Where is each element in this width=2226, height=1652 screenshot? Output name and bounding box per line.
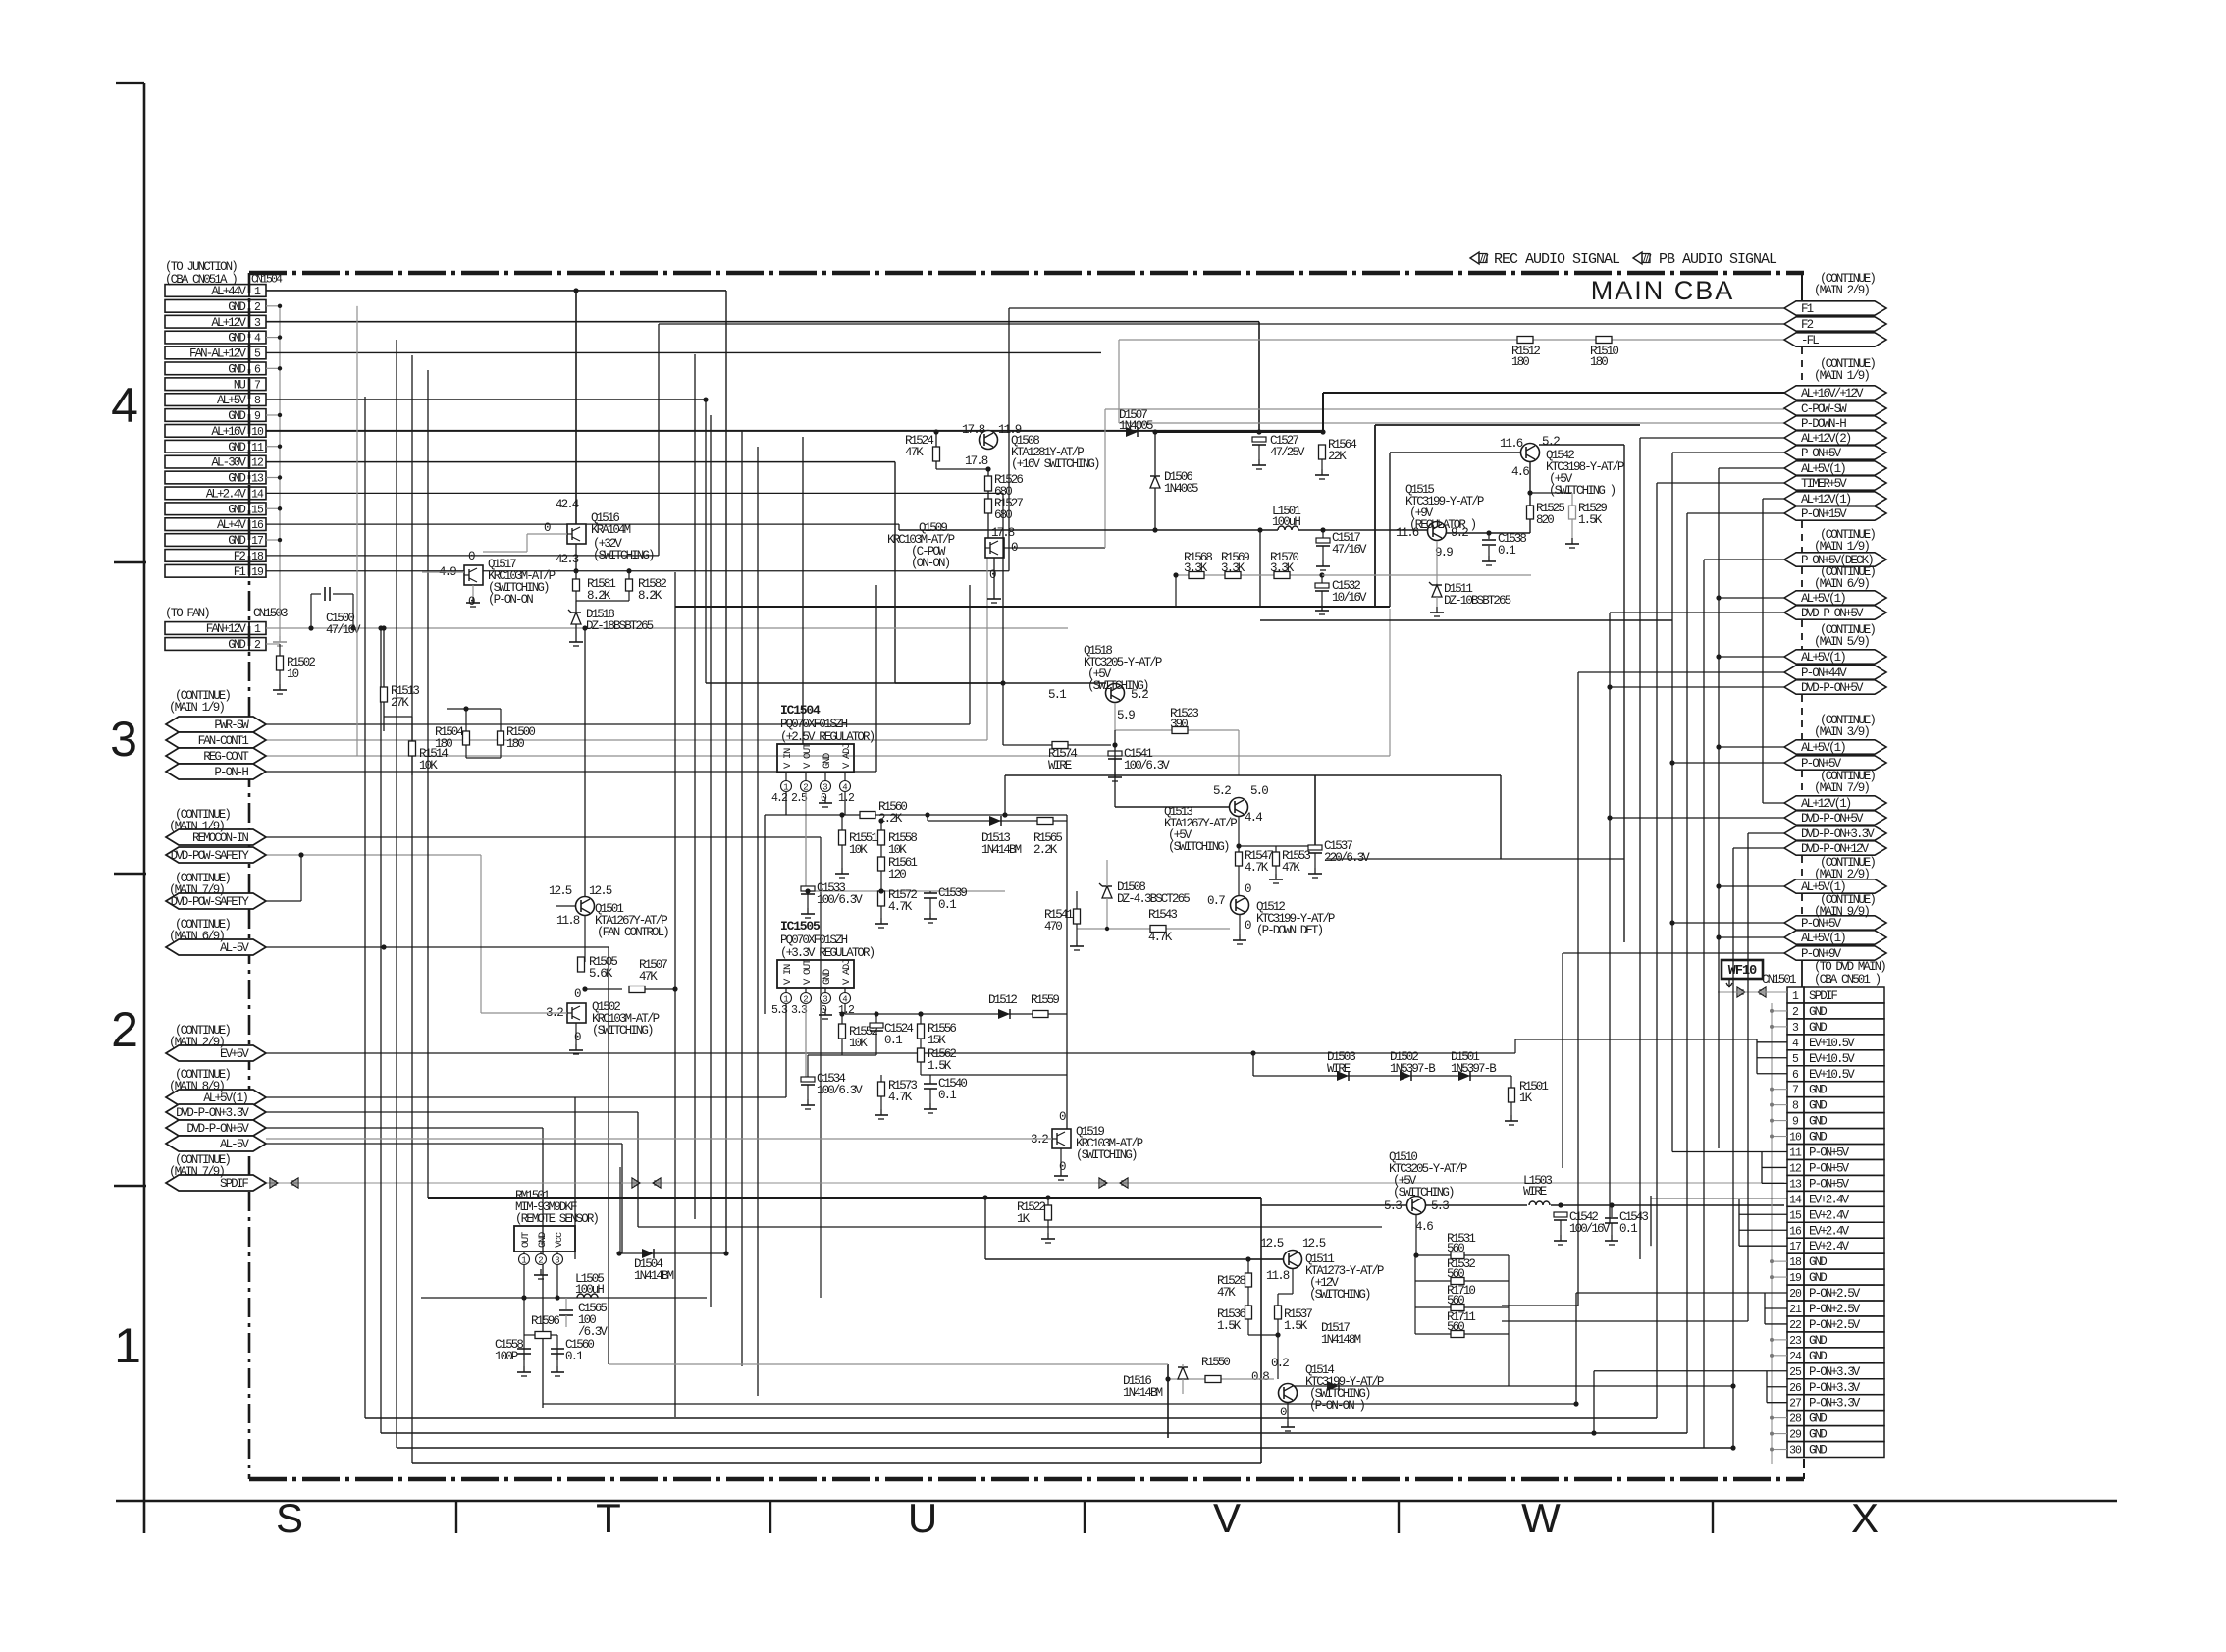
- svg-text:OUT: OUT: [520, 1232, 532, 1248]
- svg-text:30: 30: [1789, 1445, 1802, 1458]
- svg-text:1.5K: 1.5K: [1578, 513, 1603, 527]
- svg-text:0.1: 0.1: [884, 1034, 902, 1047]
- svg-text:1N4005: 1N4005: [1119, 419, 1153, 433]
- svg-text:21: 21: [1789, 1304, 1802, 1316]
- svg-text:EV+10.5V: EV+10.5V: [1809, 1037, 1855, 1050]
- svg-text:11.8: 11.8: [1266, 1269, 1290, 1283]
- svg-text:(MAIN 9/9): (MAIN 9/9): [1814, 905, 1869, 919]
- svg-text:120: 120: [888, 868, 906, 881]
- svg-text:180: 180: [435, 737, 452, 751]
- svg-text:2.2K: 2.2K: [1033, 843, 1058, 857]
- svg-text:10/16V: 10/16V: [1332, 591, 1367, 605]
- svg-text:12: 12: [251, 457, 264, 470]
- svg-text:17.8: 17.8: [962, 423, 985, 437]
- svg-text:19: 19: [1789, 1272, 1802, 1285]
- svg-text:4.4: 4.4: [1245, 811, 1262, 825]
- svg-text:-FL: -FL: [1801, 334, 1819, 347]
- svg-text:(MAIN 5/9): (MAIN 5/9): [1814, 635, 1869, 649]
- svg-text:GND: GND: [1809, 1099, 1827, 1113]
- svg-text:7: 7: [1792, 1085, 1798, 1097]
- svg-text:22K: 22K: [1328, 450, 1347, 463]
- svg-text:GND: GND: [821, 969, 833, 985]
- svg-text:1.2: 1.2: [838, 792, 855, 805]
- svg-text:180: 180: [1590, 355, 1608, 369]
- svg-text:(MAIN 2/9): (MAIN 2/9): [1814, 284, 1869, 297]
- svg-text:3.3K: 3.3K: [1221, 561, 1245, 575]
- svg-text:SPDIF: SPDIF: [1809, 989, 1837, 1003]
- svg-text:1: 1: [783, 783, 788, 793]
- svg-text:(MAIN 1/9): (MAIN 1/9): [1814, 540, 1869, 554]
- svg-text:10K: 10K: [849, 1037, 868, 1050]
- svg-text:GND: GND: [1809, 1412, 1827, 1426]
- svg-text:AL+5V(1): AL+5V(1): [1801, 880, 1845, 894]
- svg-text:(SWITCHING ): (SWITCHING ): [1549, 484, 1616, 498]
- svg-text:R1550: R1550: [1201, 1356, 1230, 1369]
- svg-text:AL+16V/+12V: AL+16V/+12V: [1801, 387, 1864, 400]
- svg-text:AL+5V(1): AL+5V(1): [1801, 741, 1845, 755]
- svg-text:0.1: 0.1: [1498, 544, 1515, 558]
- svg-text:5.6K: 5.6K: [589, 967, 613, 981]
- svg-text:18: 18: [251, 551, 264, 563]
- svg-text:EV+10.5V: EV+10.5V: [1809, 1052, 1855, 1066]
- svg-text:(P-DOWN DET): (P-DOWN DET): [1256, 924, 1323, 937]
- svg-text:3.3K: 3.3K: [1270, 561, 1295, 575]
- svg-text:390: 390: [1170, 718, 1188, 731]
- svg-text:15K: 15K: [927, 1034, 946, 1047]
- svg-text:22: 22: [1789, 1319, 1802, 1332]
- svg-text:DVD-POW-SAFETY: DVD-POW-SAFETY: [171, 849, 250, 863]
- svg-text:AL+5V(1): AL+5V(1): [1801, 932, 1845, 945]
- svg-text:GND: GND: [1809, 1271, 1827, 1285]
- svg-text:13: 13: [251, 473, 264, 486]
- svg-text:AL+12V(1): AL+12V(1): [1801, 493, 1851, 506]
- svg-text:560: 560: [1447, 1267, 1464, 1281]
- svg-text:GND: GND: [228, 534, 245, 548]
- svg-text:F2: F2: [1801, 318, 1814, 332]
- svg-text:AL+16V: AL+16V: [211, 425, 246, 439]
- svg-text:AL+5V(1): AL+5V(1): [1801, 651, 1845, 665]
- svg-text:47K: 47K: [639, 970, 658, 984]
- svg-text:15: 15: [1789, 1209, 1802, 1222]
- svg-text:24: 24: [1789, 1351, 1802, 1363]
- svg-text:42.3: 42.3: [556, 553, 579, 566]
- svg-text:15: 15: [251, 504, 264, 516]
- svg-text:AL+12V: AL+12V: [211, 316, 246, 330]
- svg-text:3: 3: [555, 1256, 559, 1266]
- svg-text:R1559: R1559: [1031, 993, 1059, 1007]
- svg-text:GND: GND: [1809, 1334, 1827, 1348]
- svg-text:GND: GND: [1809, 1444, 1827, 1458]
- svg-text:P-ON+3.3V: P-ON+3.3V: [1809, 1381, 1861, 1395]
- svg-text:4.7K: 4.7K: [1245, 861, 1269, 875]
- svg-text:P-DOWN-H: P-DOWN-H: [1801, 417, 1846, 431]
- svg-text:GND: GND: [228, 409, 245, 423]
- svg-text:16: 16: [251, 519, 264, 532]
- svg-text:CN1503: CN1503: [253, 607, 288, 620]
- svg-text:GND: GND: [1809, 1115, 1827, 1129]
- svg-text:(MAIN 1/9): (MAIN 1/9): [1814, 369, 1869, 383]
- svg-text:12.5: 12.5: [549, 884, 572, 898]
- svg-text:(CBA CN501 ): (CBA CN501 ): [1814, 973, 1881, 986]
- svg-text:DVD-P-ON+12V: DVD-P-ON+12V: [1801, 842, 1870, 856]
- svg-text:P-ON+3.3V: P-ON+3.3V: [1809, 1365, 1861, 1379]
- svg-text:9.9: 9.9: [1435, 546, 1453, 560]
- svg-text:23: 23: [1789, 1335, 1802, 1348]
- svg-text:EV+10.5V: EV+10.5V: [1809, 1068, 1855, 1082]
- svg-text:5.0: 5.0: [1250, 784, 1268, 798]
- svg-text:V: V: [1213, 1495, 1241, 1541]
- svg-text:DVD-P-ON+3.3V: DVD-P-ON+3.3V: [176, 1106, 249, 1120]
- svg-text:(TO JUNCTION): (TO JUNCTION): [165, 260, 237, 274]
- svg-text:2: 2: [111, 1002, 138, 1057]
- svg-text:P-ON+15V: P-ON+15V: [1801, 507, 1847, 521]
- svg-text:47/25V: 47/25V: [1270, 446, 1305, 459]
- svg-text:REMOCON-IN: REMOCON-IN: [192, 831, 248, 845]
- svg-text:1N414BM: 1N414BM: [634, 1269, 674, 1283]
- svg-text:PB AUDIO SIGNAL: PB AUDIO SIGNAL: [1659, 251, 1777, 268]
- svg-text:16: 16: [1789, 1225, 1802, 1238]
- svg-text:DZ-18BSBT265: DZ-18BSBT265: [586, 619, 654, 633]
- svg-text:42.4: 42.4: [556, 498, 579, 511]
- svg-text:4.7K: 4.7K: [1148, 931, 1173, 944]
- svg-text:100/16V: 100/16V: [1569, 1222, 1611, 1236]
- svg-text:P-ON+5V: P-ON+5V: [1801, 757, 1842, 771]
- svg-text:(SWITCHING): (SWITCHING): [1393, 1186, 1454, 1199]
- svg-text:(SWITCHING): (SWITCHING): [593, 549, 654, 562]
- svg-text:10: 10: [251, 426, 264, 439]
- svg-text:2: 2: [803, 995, 808, 1005]
- svg-text:820: 820: [1536, 513, 1554, 527]
- svg-text:1.5K: 1.5K: [927, 1059, 952, 1073]
- svg-text:DVD-POW-SAFETY: DVD-POW-SAFETY: [171, 895, 250, 909]
- svg-text:Vcc: Vcc: [554, 1232, 565, 1248]
- svg-text:FAN+12V: FAN+12V: [206, 622, 247, 636]
- svg-text:GND: GND: [1809, 1428, 1827, 1442]
- svg-text:5.2: 5.2: [1131, 688, 1148, 702]
- svg-text:3: 3: [822, 783, 827, 793]
- svg-text:(MAIN 6/9): (MAIN 6/9): [169, 930, 224, 943]
- svg-text:14: 14: [251, 488, 264, 501]
- svg-text:47K: 47K: [905, 446, 924, 459]
- svg-text:17: 17: [251, 535, 263, 548]
- svg-text:12.5: 12.5: [1302, 1237, 1326, 1251]
- svg-text:V IN: V IN: [782, 748, 794, 769]
- svg-text:11.8: 11.8: [556, 914, 580, 928]
- svg-text:EV+2.4V: EV+2.4V: [1809, 1208, 1850, 1222]
- svg-text:AL+5V(1): AL+5V(1): [1801, 592, 1845, 606]
- svg-text:P-ON+3.3V: P-ON+3.3V: [1809, 1397, 1861, 1411]
- svg-text:4.7K: 4.7K: [888, 900, 913, 914]
- svg-text:(SWITCHING): (SWITCHING): [1076, 1148, 1137, 1162]
- svg-text:(+3.3V REGULATOR): (+3.3V REGULATOR): [780, 946, 874, 960]
- svg-text:17.8: 17.8: [965, 454, 988, 468]
- svg-text:(MAIN 8/9): (MAIN 8/9): [169, 1080, 224, 1093]
- svg-text:GND: GND: [228, 300, 245, 314]
- svg-text:13: 13: [1789, 1178, 1802, 1191]
- svg-text:25: 25: [1789, 1366, 1802, 1379]
- svg-text:4: 4: [842, 783, 847, 793]
- svg-text:14: 14: [1789, 1194, 1802, 1206]
- svg-text:GND: GND: [1809, 1021, 1827, 1035]
- svg-text:AL+5V: AL+5V: [217, 394, 246, 407]
- svg-text:0.7: 0.7: [1207, 894, 1225, 908]
- svg-text:V ADJ: V ADJ: [841, 959, 853, 985]
- svg-text:10: 10: [1789, 1132, 1802, 1145]
- svg-text:(SWITCHING): (SWITCHING): [1309, 1288, 1370, 1302]
- svg-text:12.5: 12.5: [1260, 1237, 1284, 1251]
- svg-text:100uH: 100uH: [1272, 515, 1300, 529]
- svg-text:10: 10: [287, 667, 299, 681]
- svg-text:220/6.3V: 220/6.3V: [1324, 851, 1370, 865]
- svg-text:F1: F1: [1801, 302, 1814, 316]
- svg-text:P-ON+5V: P-ON+5V: [1809, 1146, 1850, 1160]
- svg-text:WIRE: WIRE: [1048, 759, 1072, 773]
- svg-text:10K: 10K: [849, 843, 868, 857]
- svg-text:560: 560: [1447, 1242, 1464, 1255]
- svg-text:R1596: R1596: [531, 1314, 559, 1328]
- svg-text:(FAN CONTROL): (FAN CONTROL): [597, 926, 668, 939]
- svg-text:0.1: 0.1: [938, 1089, 956, 1102]
- svg-text:DVD-P-ON+5V: DVD-P-ON+5V: [1801, 607, 1864, 620]
- svg-text:MAIN CBA: MAIN CBA: [1591, 276, 1735, 305]
- svg-text:4.6: 4.6: [1415, 1220, 1433, 1234]
- svg-text:(MAIN 6/9): (MAIN 6/9): [1814, 577, 1869, 591]
- svg-text:100P: 100P: [495, 1350, 518, 1363]
- svg-text:12.5: 12.5: [589, 884, 612, 898]
- svg-text:V OUT: V OUT: [802, 743, 814, 769]
- svg-text:TIMER+5V: TIMER+5V: [1801, 477, 1847, 491]
- svg-text:47K: 47K: [1282, 861, 1300, 875]
- svg-text:GND: GND: [1809, 1255, 1827, 1269]
- svg-text:EV+2.4V: EV+2.4V: [1809, 1193, 1850, 1206]
- svg-text:P-ON+5V: P-ON+5V: [1801, 917, 1842, 931]
- svg-text:(SWITCHING): (SWITCHING): [1168, 840, 1229, 854]
- svg-text:PWR-SW: PWR-SW: [214, 719, 249, 732]
- svg-text:11.6: 11.6: [1396, 526, 1419, 540]
- svg-text:P-ON+5V: P-ON+5V: [1801, 447, 1842, 460]
- svg-text:5.9: 5.9: [1117, 709, 1135, 722]
- svg-text:DVD-P-ON+5V: DVD-P-ON+5V: [1801, 812, 1864, 826]
- svg-text:P-ON+2.5V: P-ON+2.5V: [1809, 1318, 1861, 1332]
- svg-text:C-POW-SW: C-POW-SW: [1801, 402, 1847, 416]
- svg-text:(TO DVD MAIN): (TO DVD MAIN): [1814, 960, 1885, 974]
- svg-text:REG-CONT: REG-CONT: [203, 750, 249, 764]
- svg-text:(MAIN 1/9): (MAIN 1/9): [169, 820, 224, 833]
- svg-text:W: W: [1521, 1495, 1561, 1541]
- svg-text:X: X: [1851, 1495, 1879, 1541]
- svg-text:1.5K: 1.5K: [1217, 1319, 1242, 1333]
- svg-text:(MAIN 3/9): (MAIN 3/9): [1814, 725, 1869, 739]
- svg-text:19: 19: [251, 566, 264, 579]
- svg-text:11: 11: [251, 442, 264, 454]
- svg-text:0.1: 0.1: [565, 1350, 583, 1363]
- svg-text:P-ON+2.5V: P-ON+2.5V: [1809, 1287, 1861, 1301]
- svg-text:(ON-ON): (ON-ON): [911, 557, 950, 570]
- svg-text:(REMOTE SENSOR): (REMOTE SENSOR): [515, 1212, 598, 1226]
- svg-text:DZ-10BSBT265: DZ-10BSBT265: [1444, 594, 1511, 608]
- svg-text:S: S: [276, 1495, 303, 1541]
- svg-text:GND: GND: [228, 441, 245, 454]
- svg-text:T: T: [596, 1495, 621, 1541]
- svg-text:V IN: V IN: [782, 964, 794, 985]
- svg-text:GND: GND: [537, 1232, 549, 1248]
- svg-text:1N4148M: 1N4148M: [1321, 1333, 1361, 1347]
- svg-text:(P-ON-ON ): (P-ON-ON ): [1309, 1399, 1364, 1412]
- svg-text:AL+12V(1): AL+12V(1): [1801, 797, 1851, 811]
- svg-text:3.2: 3.2: [1031, 1133, 1048, 1146]
- svg-text:2: 2: [803, 783, 808, 793]
- svg-text:DZ-4.3BSCT265: DZ-4.3BSCT265: [1117, 892, 1190, 906]
- svg-text:11.6: 11.6: [1500, 437, 1523, 451]
- svg-text:P-ON+2.5V: P-ON+2.5V: [1809, 1303, 1861, 1316]
- svg-text:F1: F1: [234, 565, 246, 579]
- svg-text:DVD-P-ON+3.3V: DVD-P-ON+3.3V: [1801, 827, 1875, 841]
- svg-text:180: 180: [506, 737, 524, 751]
- svg-text:0.8: 0.8: [1251, 1370, 1269, 1384]
- svg-text:REC AUDIO SIGNAL: REC AUDIO SIGNAL: [1494, 251, 1620, 268]
- svg-text:U: U: [908, 1495, 937, 1541]
- svg-text:/6.3V: /6.3V: [578, 1325, 608, 1339]
- svg-text:1: 1: [783, 995, 788, 1005]
- svg-text:(MAIN 2/9): (MAIN 2/9): [1814, 868, 1869, 881]
- svg-text:AL+5V(1): AL+5V(1): [203, 1092, 247, 1105]
- svg-text:(TO FAN): (TO FAN): [165, 607, 209, 620]
- svg-text:0.1: 0.1: [938, 898, 956, 912]
- svg-text:27K: 27K: [391, 696, 409, 710]
- svg-text:1N5397-B: 1N5397-B: [1451, 1062, 1497, 1076]
- svg-text:GND: GND: [1809, 1005, 1827, 1019]
- svg-text:GND: GND: [228, 503, 245, 516]
- svg-text:1N414BM: 1N414BM: [981, 843, 1022, 857]
- svg-text:560: 560: [1447, 1320, 1464, 1334]
- svg-text:1N5397-B: 1N5397-B: [1390, 1062, 1436, 1076]
- svg-text:AL-5V: AL-5V: [220, 941, 249, 955]
- svg-text:0.1: 0.1: [1619, 1222, 1637, 1236]
- svg-text:NU: NU: [234, 378, 246, 392]
- svg-text:(+2.5V REGULATOR): (+2.5V REGULATOR): [780, 730, 874, 744]
- svg-text:100/6.3V: 100/6.3V: [817, 893, 863, 907]
- svg-text:29: 29: [1789, 1429, 1802, 1442]
- svg-text:12: 12: [1789, 1162, 1802, 1175]
- svg-text:WIRE: WIRE: [1327, 1062, 1351, 1076]
- svg-text:4.6: 4.6: [1511, 465, 1529, 479]
- svg-text:0.2: 0.2: [1271, 1357, 1289, 1370]
- svg-text:F2: F2: [234, 550, 246, 563]
- svg-text:5.3: 5.3: [1384, 1199, 1402, 1213]
- svg-text:CN1501: CN1501: [1762, 973, 1796, 986]
- svg-text:(+16V SWITCHING): (+16V SWITCHING): [1011, 457, 1099, 471]
- svg-text:(MAIN 1/9): (MAIN 1/9): [169, 701, 224, 715]
- svg-text:5.2: 5.2: [1213, 784, 1231, 798]
- svg-text:V OUT: V OUT: [802, 959, 814, 985]
- svg-text:7: 7: [254, 379, 260, 392]
- svg-text:560: 560: [1447, 1294, 1464, 1307]
- svg-text:P-ON+5V: P-ON+5V: [1809, 1161, 1850, 1175]
- svg-text:1.5K: 1.5K: [1284, 1319, 1308, 1333]
- svg-text:V ADJ: V ADJ: [841, 743, 853, 769]
- svg-text:GND: GND: [821, 753, 833, 769]
- svg-text:DVD-P-ON+5V: DVD-P-ON+5V: [186, 1122, 249, 1136]
- svg-text:100uH: 100uH: [575, 1283, 604, 1297]
- svg-text:GND: GND: [228, 472, 245, 486]
- svg-text:P-ON+9V: P-ON+9V: [1801, 947, 1842, 961]
- svg-text:8.2K: 8.2K: [638, 589, 662, 603]
- svg-text:47K: 47K: [1217, 1286, 1236, 1300]
- svg-text:180: 180: [1511, 355, 1529, 369]
- svg-text:AL+5V(1): AL+5V(1): [1801, 462, 1845, 476]
- svg-text:5.1: 5.1: [1048, 688, 1066, 702]
- svg-text:18: 18: [1789, 1256, 1802, 1269]
- svg-text:EV+2.4V: EV+2.4V: [1809, 1224, 1850, 1238]
- svg-text:GND: GND: [1809, 1131, 1827, 1145]
- svg-text:1: 1: [521, 1256, 526, 1266]
- svg-text:PQ070XF01SZH: PQ070XF01SZH: [780, 933, 848, 947]
- svg-text:(SWITCHING): (SWITCHING): [592, 1024, 653, 1038]
- svg-text:(MAIN 7/9): (MAIN 7/9): [169, 883, 224, 897]
- svg-text:(MAIN 2/9): (MAIN 2/9): [169, 1036, 224, 1049]
- svg-text:26: 26: [1789, 1382, 1802, 1395]
- svg-text:SPDIF: SPDIF: [220, 1177, 248, 1191]
- svg-text:11: 11: [1789, 1147, 1802, 1160]
- svg-text:20: 20: [1789, 1288, 1802, 1301]
- svg-text:2: 2: [538, 1256, 543, 1266]
- svg-text:GND: GND: [1809, 1084, 1827, 1097]
- svg-text:GND: GND: [228, 362, 245, 376]
- svg-text:IC1504: IC1504: [780, 703, 821, 718]
- svg-text:(MAIN 7/9): (MAIN 7/9): [169, 1165, 224, 1179]
- svg-text:470: 470: [1044, 920, 1062, 933]
- svg-text:10K: 10K: [419, 759, 438, 773]
- svg-text:5.2: 5.2: [1542, 435, 1560, 449]
- svg-text:27: 27: [1789, 1398, 1801, 1411]
- svg-text:3.3K: 3.3K: [1184, 561, 1208, 575]
- svg-text:3: 3: [822, 995, 827, 1005]
- svg-text:P-ON+5V: P-ON+5V: [1809, 1177, 1850, 1191]
- svg-text:IC1505: IC1505: [780, 919, 821, 933]
- svg-text:FAN-CONT1: FAN-CONT1: [198, 734, 249, 748]
- svg-text:AL+44V: AL+44V: [211, 285, 246, 298]
- svg-text:D1512: D1512: [988, 993, 1017, 1007]
- svg-text:GND: GND: [228, 332, 245, 346]
- svg-text:AL+2.4V: AL+2.4V: [206, 487, 247, 501]
- svg-text:(MAIN 7/9): (MAIN 7/9): [1814, 781, 1869, 795]
- svg-text:47/16V: 47/16V: [326, 623, 361, 637]
- svg-text:P-ON-H: P-ON-H: [214, 766, 248, 779]
- svg-text:P-ON+44V: P-ON+44V: [1801, 666, 1847, 680]
- svg-text:AL+4V: AL+4V: [217, 518, 246, 532]
- svg-text:5.3: 5.3: [1431, 1199, 1449, 1213]
- svg-text:1: 1: [114, 1318, 141, 1373]
- svg-text:AL-30V: AL-30V: [211, 456, 246, 470]
- svg-text:4: 4: [111, 378, 138, 433]
- svg-text:1N4005: 1N4005: [1164, 482, 1198, 496]
- svg-text:28: 28: [1789, 1413, 1802, 1426]
- svg-text:10K: 10K: [888, 843, 907, 857]
- svg-text:R1543: R1543: [1148, 908, 1177, 922]
- svg-text:100/6.3V: 100/6.3V: [1124, 759, 1170, 773]
- svg-text:3: 3: [110, 712, 137, 767]
- svg-text:(P-ON-ON: (P-ON-ON: [488, 593, 533, 607]
- svg-text:GND: GND: [1809, 1350, 1827, 1363]
- svg-text:GND: GND: [228, 638, 245, 652]
- svg-text:47/16V: 47/16V: [1332, 543, 1367, 557]
- svg-text:100/6.3V: 100/6.3V: [817, 1084, 863, 1097]
- svg-text:1N414BM: 1N414BM: [1123, 1386, 1163, 1400]
- svg-text:4.7K: 4.7K: [888, 1091, 913, 1104]
- svg-text:17: 17: [1789, 1241, 1801, 1253]
- svg-text:PQ070XF01SZH: PQ070XF01SZH: [780, 718, 848, 731]
- svg-text:EV+5V: EV+5V: [220, 1047, 249, 1061]
